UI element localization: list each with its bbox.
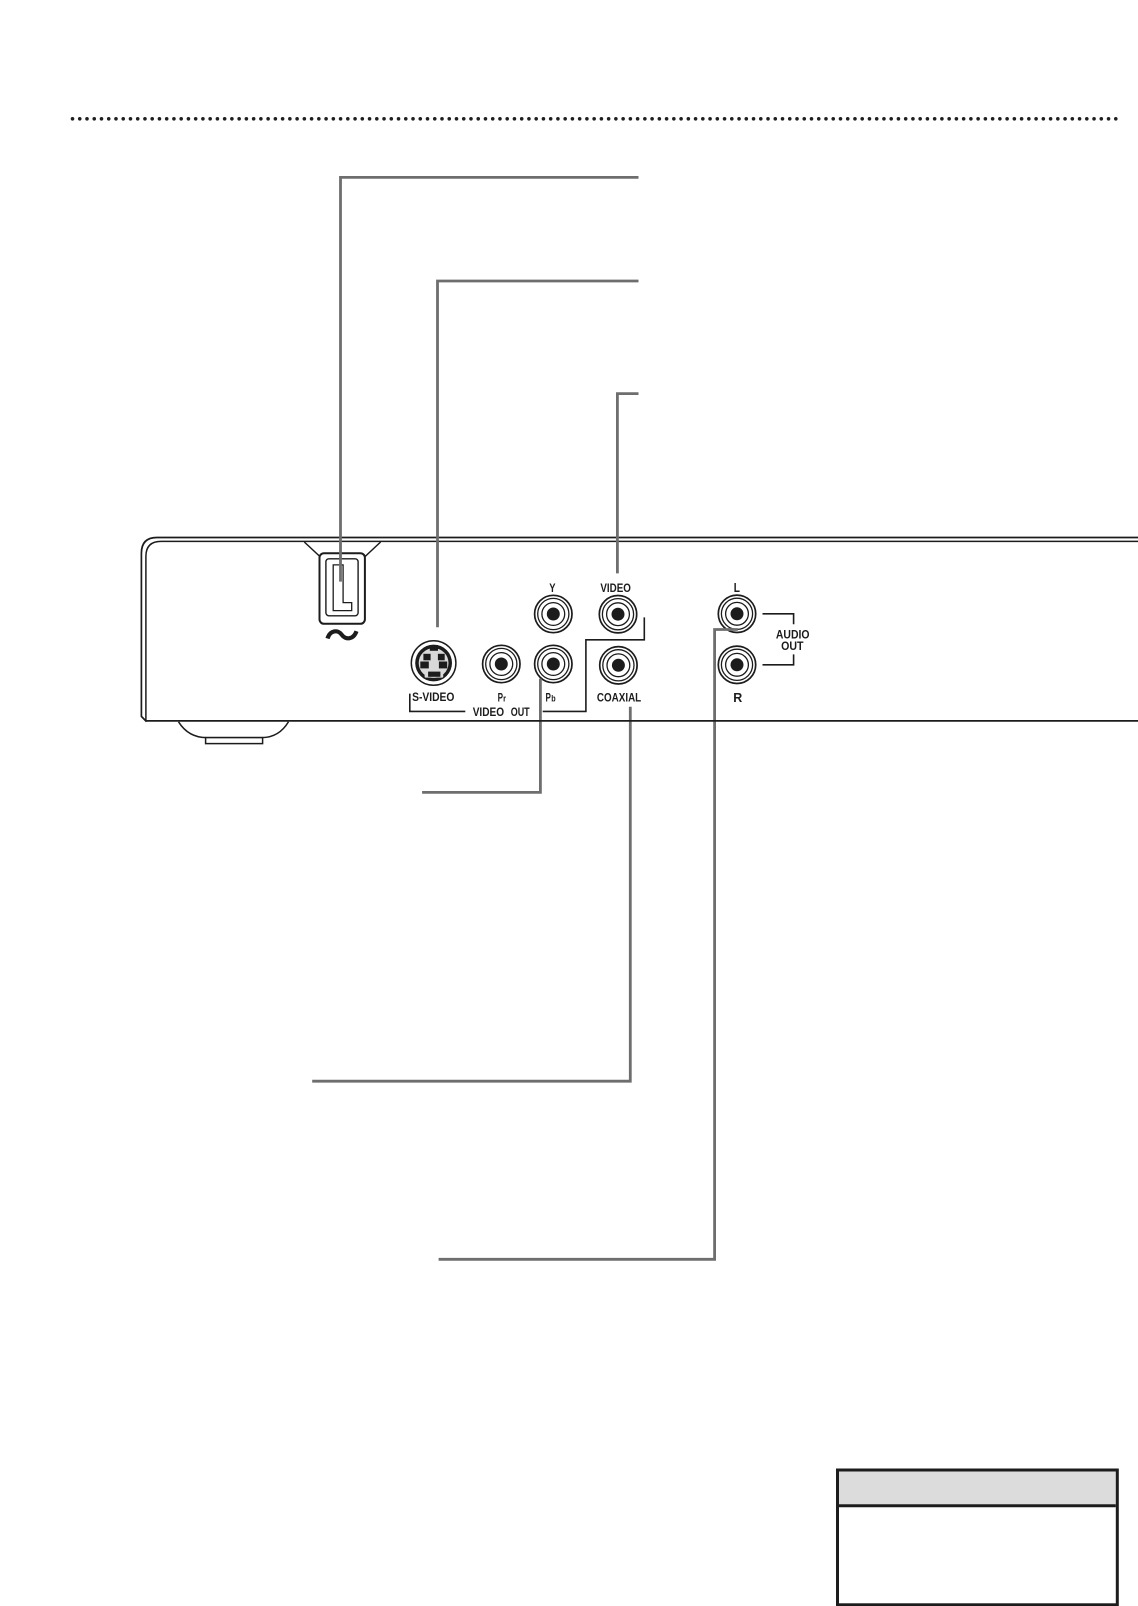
svg-text:VIDEO: VIDEO <box>600 581 631 595</box>
svg-text:Y: Y <box>549 581 555 595</box>
svg-text:OUT: OUT <box>511 705 530 719</box>
svg-text:R: R <box>733 690 743 705</box>
svg-text:P: P <box>546 691 551 705</box>
svg-text:S-VIDEO: S-VIDEO <box>412 690 454 704</box>
svg-text:r: r <box>503 694 506 704</box>
svg-text:VIDEO: VIDEO <box>473 705 504 719</box>
svg-text:COAXIAL: COAXIAL <box>597 691 641 705</box>
svg-text:L: L <box>734 580 740 595</box>
svg-text:b: b <box>551 694 556 704</box>
svg-text:OUT: OUT <box>781 639 804 653</box>
